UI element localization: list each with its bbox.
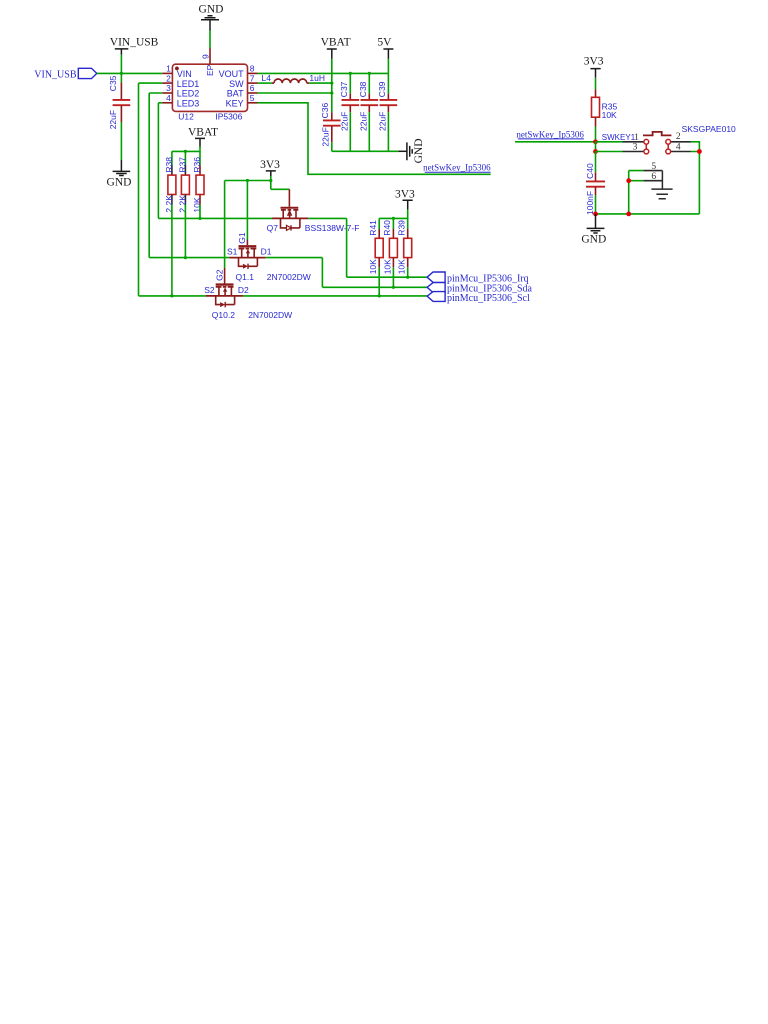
svg-text:3V3: 3V3 [395,188,415,200]
wire capacitor ground rail [332,150,399,152]
wire Q7 drain to Irq line [308,218,427,277]
junction R41/Scl [378,294,381,297]
svg-text:LED1: LED1 [177,79,200,89]
pin 3 lead (LED2) [162,92,172,94]
net flag VBAT (above R36) [188,126,218,146]
transistor Q7 [267,189,309,233]
svg-text:1: 1 [166,64,171,74]
wire VIN_USB flag down [120,55,122,74]
ground GND (right of capacitor rail, rotated) [398,138,425,163]
svg-text:SWKEY1: SWKEY1 [602,133,636,142]
wire R36 to LED3 line [199,205,201,219]
ground GND (right block) [581,214,606,245]
junction pin5-6 branch/rail [626,212,631,217]
svg-text:7: 7 [250,73,255,83]
svg-text:LED2: LED2 [177,89,200,99]
resistor R38 [164,157,176,213]
wire LED1 net (pin 2 to S2) [139,83,206,296]
svg-text:1uH: 1uH [309,73,325,83]
svg-text:22uF: 22uF [339,112,349,131]
svg-text:3V3: 3V3 [584,56,604,68]
pin 9 lead of U12 [209,48,211,64]
wire netSwKey into switch node [515,141,596,143]
junction VOUT/C37 [349,72,352,75]
port VIN_USB [34,68,97,80]
svg-text:C40: C40 [585,163,595,179]
svg-text:R39: R39 [396,220,406,236]
svg-text:5: 5 [651,162,656,172]
junction R35/netSwKey [593,139,598,144]
svg-text:VIN_USB: VIN_USB [34,69,77,80]
resistor R36 [192,157,204,213]
wire to switch pin 1 [596,141,623,143]
svg-text:R36: R36 [192,157,202,173]
pin 7 lead (SW) [248,82,258,84]
wire VBAT down to C36 [331,59,333,112]
svg-text:10K: 10K [368,259,378,274]
wire 3V3 to pull-up tops [379,210,408,229]
svg-text:BAT: BAT [227,89,244,99]
port pinMcu_IP5306_Irq [427,272,529,284]
wire pin5/pin6 to ground rail [629,171,644,214]
wire D1 to Sda line [266,258,427,288]
pin 5 lead (KEY) [248,102,258,104]
net flag 5V [377,37,393,59]
svg-text:netSwKey_Ip5306: netSwKey_Ip5306 [423,163,491,173]
svg-text:2: 2 [166,73,171,83]
svg-text:Q7: Q7 [267,223,279,233]
svg-text:R41: R41 [368,220,378,236]
svg-text:C37: C37 [339,81,349,97]
svg-text:BSS138W-7-F: BSS138W-7-F [305,223,360,233]
junction VIN_USB/C35 [120,72,123,75]
svg-text:R37: R37 [178,157,188,173]
pin 2 lead (LED1) [162,82,172,84]
port pinMcu_IP5306_Sda [427,283,532,295]
wire 5V down [387,59,389,74]
wire LED3 net (pin 4 to Q7 source) [158,103,272,219]
wire C36 to rail [331,142,333,151]
wire C40 to ground rail [595,195,597,214]
resistor R39 [396,220,411,274]
resistor R37 [178,157,190,213]
svg-text:VBAT: VBAT [188,126,218,138]
svg-text:S1: S1 [227,247,238,257]
svg-text:22uF: 22uF [108,110,118,129]
wire node down to pin3 branch [595,142,597,152]
wire 3V3 to R35 [595,78,597,89]
wire BAT to VBAT rail [258,92,332,94]
junction R39/Irq [406,276,409,279]
svg-text:C38: C38 [358,81,368,97]
svg-text:2: 2 [676,132,681,142]
svg-text:C39: C39 [377,81,387,97]
svg-text:VIN_USB: VIN_USB [110,37,159,49]
wire to switch pin 3 [596,151,623,153]
svg-text:IP5306: IP5306 [215,112,242,122]
wire pin2/pin4 to right rail [691,142,700,214]
svg-text:U12: U12 [178,112,194,122]
IC U12 IP5306 body [172,64,247,111]
capacitor C38 [358,73,378,151]
wire VIN_USB port to pin 1 [97,72,162,74]
svg-text:3: 3 [166,83,171,93]
svg-text:GND: GND [199,3,224,15]
wire VOUT to 5V rail [258,72,389,74]
earth ground (switch frame) [651,171,672,199]
junction C40/rail [593,212,598,217]
svg-text:10K: 10K [382,259,392,274]
svg-text:SKSGPAE010: SKSGPAE010 [682,124,736,134]
pin 4 lead (LED3) [162,102,172,104]
wire R39 to Irq line [407,267,409,277]
svg-text:4: 4 [676,142,681,152]
wire 3V3 gate rail [225,176,290,189]
svg-text:100nF: 100nF [585,191,595,215]
junction R36/LED3 [198,217,201,220]
wire SW to inductor [258,82,273,84]
svg-text:G1: G1 [237,232,247,244]
wire D2 to Scl line [243,295,427,297]
junction VBAT/R37 [184,150,187,153]
svg-text:R40: R40 [382,220,392,236]
wire C35 to GND [120,122,122,160]
svg-text:22uF: 22uF [358,112,368,131]
pin 1 lead (VIN) [162,72,172,74]
svg-text:1: 1 [634,133,639,143]
junction 3V3 stub [269,179,272,182]
junction VBAT/BAT [330,91,333,94]
svg-text:6: 6 [651,172,656,182]
svg-text:C35: C35 [108,75,118,91]
capacitor C40 [585,152,605,216]
wire KEY net [258,103,491,175]
port pinMcu_IP5306_Scl [427,292,530,304]
pin 6 lead (BAT) [248,92,258,94]
inductor L4 [262,73,325,83]
junction R40/Sda [392,286,395,289]
pin numbers 1-4 of U12 [166,64,171,103]
svg-text:GND: GND [107,176,132,188]
svg-text:GND: GND [413,138,425,163]
transistor Q1.1 [227,181,272,283]
net label netSwKey_Ip5306 (right) [516,129,584,139]
junction R37/LED2 [184,256,187,259]
wire L4 to VBAT rail [309,82,332,84]
junction pin4/right rail [697,149,702,154]
svg-text:L4: L4 [262,73,272,83]
wire GND to pin 9 [209,31,211,49]
svg-text:Q10.2: Q10.2 [212,310,235,320]
wire G2 drop (3V3 to Q10.2 gate) [224,181,226,269]
resistor R40 [382,220,397,274]
svg-text:2N7002DW: 2N7002DW [267,272,311,282]
svg-text:22uF: 22uF [321,127,331,146]
wire R35 to switch node [595,127,597,142]
ground GND (top, above U12 pin 9) [199,3,224,30]
svg-text:KEY: KEY [226,99,244,109]
net flag 3V3 (right block) [584,56,604,78]
net flag VBAT (top) [321,37,351,59]
svg-text:22uF: 22uF [377,112,387,131]
switch SWKEY1 SKSGPAE010 [623,132,691,154]
capacitor C36 [320,103,340,147]
svg-text:10K: 10K [397,259,407,274]
svg-text:2N7002DW: 2N7002DW [248,310,292,320]
resistor R35 [592,89,618,126]
svg-text:D2: D2 [238,285,249,295]
junction pin6 [626,178,631,183]
svg-text:EP: EP [205,64,215,76]
svg-text:VIN: VIN [177,69,192,79]
transistor Q10.2 [204,268,249,320]
junction 3V3/G1 [246,179,249,182]
junction 3V3/R40 [392,217,395,220]
svg-text:R38: R38 [164,157,174,173]
net label netSwKey_Ip5306 (left) [423,163,491,173]
wire R41 to Scl line [378,267,380,296]
svg-text:5: 5 [250,93,255,103]
resistor R41 [368,220,383,274]
svg-text:SW: SW [229,79,244,89]
ground GND (below C35) [107,160,132,188]
net flag 3V3 (above R39) [395,188,415,209]
wire R40 to Sda line [392,267,394,287]
pin 8 lead (VOUT) [248,72,258,74]
junction VOUT/C38 [368,72,371,75]
svg-text:3: 3 [633,142,638,152]
pin numbers 5-8 of U12 [250,64,255,103]
svg-text:10K: 10K [602,110,617,120]
svg-text:4: 4 [166,93,171,103]
capacitor C39 [377,73,397,151]
capacitor C37 [339,73,359,151]
svg-text:VBAT: VBAT [321,37,351,49]
pin 6 lead (SWKEY1) [643,180,662,182]
net flag 3V3 (left, above Q7) [260,159,280,176]
junction R38/LED1 [170,294,173,297]
svg-text:3V3: 3V3 [260,159,280,171]
wire R37 to S1 line [184,205,186,258]
capacitor C35 [108,73,130,129]
svg-text:VOUT: VOUT [219,69,245,79]
svg-text:9: 9 [201,54,211,59]
wire bottom ground rail [596,213,700,215]
pin 5 lead (SWKEY1) [643,170,662,172]
junction VBAT/L4 [330,82,333,85]
net flag VIN_USB (top) [110,37,159,55]
svg-text:S2: S2 [204,285,215,295]
svg-text:netSwKey_Ip5306: netSwKey_Ip5306 [516,129,584,139]
wire VBAT to resistor tops [172,147,200,166]
junction pin3 branch [593,149,598,154]
svg-text:LED3: LED3 [177,99,200,109]
wire R38 to S2 line [171,205,173,296]
svg-text:Q1.1: Q1.1 [236,272,255,282]
svg-text:C36: C36 [320,103,330,119]
svg-text:pinMcu_IP5306_Scl: pinMcu_IP5306_Scl [447,293,530,304]
svg-text:5V: 5V [377,37,392,49]
svg-text:GND: GND [581,233,606,245]
svg-text:G2: G2 [214,269,224,281]
svg-text:8: 8 [250,64,255,74]
wire LED2 net (pin 3 to S1) [149,93,229,258]
svg-text:D1: D1 [261,247,272,257]
svg-text:6: 6 [250,83,255,93]
